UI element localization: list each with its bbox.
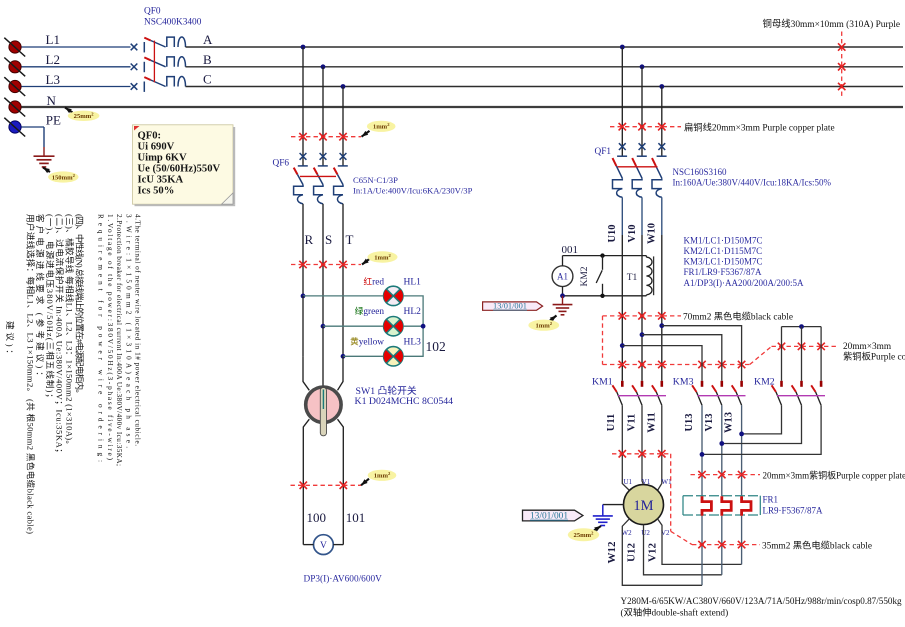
svg-text:V13: V13 <box>704 413 715 431</box>
svg-text:FR1/LR9·F5367/87A: FR1/LR9·F5367/87A <box>684 267 763 277</box>
svg-text:150mm2: 150mm2 <box>52 173 76 182</box>
svg-text:DP3(I)·AV600/600V: DP3(I)·AV600/600V <box>304 573 383 584</box>
svg-text:U1: U1 <box>624 478 633 486</box>
svg-text:T: T <box>346 232 354 247</box>
svg-text:QF6: QF6 <box>273 158 290 168</box>
svg-text:C: C <box>203 72 212 87</box>
svg-text:(三)、橘胶导线 每相线L1、L2、L3：1×150mm2: (三)、橘胶导线 每相线L1、L2、L3：1×150mm2 (1×310A)。 <box>64 214 75 449</box>
svg-text:T1: T1 <box>627 273 638 283</box>
svg-text:20mm×3mm: 20mm×3mm <box>843 342 892 352</box>
svg-text:(四)、中性线(N) 总接线端止的位置在#电源配电柜内。: (四)、中性线(N) 总接线端止的位置在#电源配电柜内。 <box>74 214 85 398</box>
svg-text:KM3: KM3 <box>673 377 694 388</box>
svg-text:In:160A/Ue:380V/440V/Icu:18KA/: In:160A/Ue:380V/440V/Icu:18KA/Ics:50% <box>673 178 832 188</box>
svg-text:红red: 红red <box>364 275 385 287</box>
svg-text:HL2: HL2 <box>404 307 422 317</box>
svg-text:U13: U13 <box>684 413 695 431</box>
svg-text:QF0:: QF0: <box>138 131 162 142</box>
svg-text:A1: A1 <box>557 272 568 282</box>
svg-text:Ui 690V: Ui 690V <box>138 142 175 153</box>
svg-text:101: 101 <box>346 510 366 525</box>
svg-text:In:1A/Ue:400V/Icu:6KA/230V/3P: In:1A/Ue:400V/Icu:6KA/230V/3P <box>353 186 473 196</box>
svg-text:V10: V10 <box>627 224 638 242</box>
svg-text:W2: W2 <box>622 529 633 537</box>
svg-text:NSC400K3400: NSC400K3400 <box>144 18 202 28</box>
svg-text:W12: W12 <box>606 541 618 564</box>
svg-text:Uimp 6KV: Uimp 6KV <box>138 153 187 164</box>
svg-text:S: S <box>325 232 332 247</box>
svg-text:KM2: KM2 <box>580 266 590 286</box>
svg-text:Ue (50/60Hz)550V: Ue (50/60Hz)550V <box>138 164 221 175</box>
svg-text:KM2: KM2 <box>754 377 775 388</box>
svg-text:70mm2 黑色电缆black cable: 70mm2 黑色电缆black cable <box>683 310 793 322</box>
svg-text:B: B <box>203 52 212 67</box>
svg-text:NSC160S3160: NSC160S3160 <box>673 167 728 177</box>
svg-text:K1 D024MCHC 8C0544: K1 D024MCHC 8C0544 <box>355 396 454 407</box>
svg-text:25mm2: 25mm2 <box>574 531 595 540</box>
svg-text:U10: U10 <box>607 224 618 242</box>
svg-text:KM1/LC1·D150M7C: KM1/LC1·D150M7C <box>684 235 763 245</box>
svg-text:(一)、电源进电压380V/50Hz(三相五线制)；: (一)、电源进电压380V/50Hz(三相五线制)； <box>45 214 56 402</box>
svg-text:L3: L3 <box>46 72 60 87</box>
svg-text:W11: W11 <box>646 412 657 432</box>
svg-text:KM3/LC1·D150M7C: KM3/LC1·D150M7C <box>684 257 763 267</box>
svg-text:U12: U12 <box>626 543 638 562</box>
svg-text:W10: W10 <box>646 223 657 244</box>
svg-text:(二)、过电流保护开关 In:400A Ue:380V/40: (二)、过电流保护开关 In:400A Ue:380V/400V；Icu:35K… <box>55 214 66 457</box>
svg-text:35mm2 黑色电缆black cable: 35mm2 黑色电缆black cable <box>762 539 872 551</box>
svg-text:4.The terminal of neuter wire: 4.The terminal of neuter wire located in… <box>134 214 142 446</box>
svg-text:建议)：: 建议)： <box>5 321 16 358</box>
svg-text:A: A <box>203 32 213 47</box>
svg-text:紫铜板Purple cop: 紫铜板Purple cop <box>843 351 905 363</box>
svg-text:扁铜线20mm×3mm Purple copper plat: 扁铜线20mm×3mm Purple copper plate <box>684 122 835 134</box>
svg-text:V1: V1 <box>642 478 651 486</box>
svg-text:13/01/001: 13/01/001 <box>493 302 527 311</box>
svg-text:铜母线30mm×10mm (310A) Purple: 铜母线30mm×10mm (310A) Purple <box>763 18 901 30</box>
svg-text:HL3: HL3 <box>404 338 422 348</box>
svg-text:(双轴伸double-shaft extend): (双轴伸double-shaft extend) <box>621 606 729 618</box>
svg-text:KM2/LC1·D115M7C: KM2/LC1·D115M7C <box>684 246 763 256</box>
svg-text:PE: PE <box>46 113 61 128</box>
svg-text:R: R <box>305 232 314 247</box>
svg-text:QF0: QF0 <box>144 7 161 17</box>
svg-text:U2: U2 <box>641 529 650 537</box>
svg-text:QF1: QF1 <box>595 147 612 157</box>
svg-text:V12: V12 <box>646 543 658 562</box>
svg-text:100: 100 <box>307 510 327 525</box>
svg-text:L1: L1 <box>46 32 60 47</box>
svg-text:2.Protection breaker for elect: 2.Protection breaker for electrical curr… <box>115 214 123 466</box>
svg-text:LR9·F5367/87A: LR9·F5367/87A <box>763 506 824 516</box>
svg-text:20mm×3mm紫铜板Purple copper plate: 20mm×3mm紫铜板Purple copper plate <box>763 469 905 480</box>
svg-text:客户电源进线要求 (参考建议)：: 客户电源进线要求 (参考建议)： <box>35 214 46 380</box>
svg-text:U11: U11 <box>606 414 617 432</box>
svg-text:黄yellow: 黄yellow <box>350 336 384 348</box>
svg-text:V: V <box>320 541 327 551</box>
svg-text:N: N <box>47 93 57 108</box>
svg-text:1M: 1M <box>633 498 653 514</box>
svg-text:102: 102 <box>426 339 446 354</box>
svg-text:IcU 35KA: IcU 35KA <box>138 175 184 186</box>
svg-text:绿green: 绿green <box>355 305 385 317</box>
svg-text:V11: V11 <box>626 414 637 432</box>
svg-text:L2: L2 <box>46 52 60 67</box>
svg-text:HL1: HL1 <box>404 277 422 287</box>
svg-text:Ics 50%: Ics 50% <box>138 186 175 197</box>
svg-text:C65N·C1/3P: C65N·C1/3P <box>353 175 398 185</box>
svg-text:25mm2: 25mm2 <box>74 112 95 121</box>
svg-text:W1: W1 <box>662 478 673 486</box>
svg-text:001: 001 <box>562 244 579 256</box>
svg-text:Y280M-6/65KW/AC380V/660V/123A/: Y280M-6/65KW/AC380V/660V/123A/71A/50Hz/9… <box>621 596 903 606</box>
svg-text:13/01/001: 13/01/001 <box>530 512 568 522</box>
svg-text:用户进线选择：每相L1、L2、L3 1×150mm2。 (共: 用户进线选择：每相L1、L2、L3 1×150mm2。 (共 根50mm2 黑色… <box>26 214 37 534</box>
svg-text:KM1: KM1 <box>592 377 613 388</box>
svg-text:FR1: FR1 <box>763 495 779 505</box>
svg-text:W13: W13 <box>724 412 735 433</box>
svg-text:A1/DP3(I)·AA200/200A/200:5A: A1/DP3(I)·AA200/200A/200:5A <box>684 278 804 288</box>
